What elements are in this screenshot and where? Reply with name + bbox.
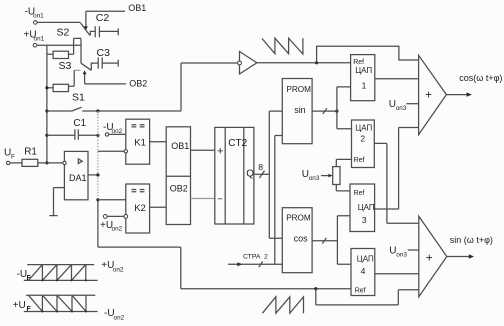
svg-text:−: − <box>217 194 223 205</box>
wire +Uop1 <box>37 44 81 46</box>
svg-text:Ref: Ref <box>354 157 365 164</box>
svg-text:+: + <box>426 253 433 265</box>
counter CT2 <box>215 127 254 224</box>
comparator K1 <box>124 119 150 164</box>
svg-text:K1: K1 <box>134 138 146 149</box>
wire PROM cos output <box>312 216 351 264</box>
bus riser B <box>275 136 283 265</box>
terminal -Uop1 <box>25 7 45 25</box>
label -UF <box>17 269 32 282</box>
switch S1 <box>47 92 98 112</box>
PROM cos <box>282 208 312 273</box>
wire bus to K1 inverting input <box>98 150 124 152</box>
svg-text:3: 3 <box>362 215 367 225</box>
svg-text:оп3: оп3 <box>396 252 407 259</box>
wire to inverter <box>181 63 238 111</box>
svg-text:4: 4 <box>361 266 366 276</box>
label -Uop2 waveform2 <box>104 308 125 322</box>
svg-text:PROM: PROM <box>286 213 311 222</box>
wire OB1 output to counter <box>191 149 215 151</box>
waveform diagram 1 <box>24 265 98 282</box>
left bus wire <box>45 45 48 164</box>
sawtooth symbol top <box>262 38 303 54</box>
wire OB2 output to counter <box>191 198 215 200</box>
one-shot block OB1 OB2 <box>166 127 190 225</box>
svg-text:-U: -U <box>17 269 28 280</box>
wire K1 output <box>150 141 167 143</box>
svg-text:C3: C3 <box>97 47 111 59</box>
svg-text:ЦАП: ЦАП <box>358 203 375 212</box>
svg-text:8: 8 <box>258 162 263 172</box>
capacitor C3 <box>97 47 119 69</box>
control arrow OB2 to S3 <box>83 70 87 84</box>
svg-text:оп3: оп3 <box>396 105 407 112</box>
wire bus to K2 input <box>98 199 126 201</box>
switch S3 <box>59 60 99 86</box>
svg-text:ЦАП: ЦАП <box>357 254 374 263</box>
svg-text:R1: R1 <box>24 146 37 157</box>
svg-text:Ref: Ref <box>354 190 365 197</box>
wire TsAP4 output <box>375 273 419 275</box>
DAC TsAP3 <box>350 184 375 232</box>
wire riser right of resistor <box>80 38 82 63</box>
svg-text:S1: S1 <box>72 92 85 104</box>
svg-text:оп1: оп1 <box>33 13 44 20</box>
svg-text:S3: S3 <box>59 60 72 72</box>
resistor upper <box>47 51 74 58</box>
terminal +Uop1 <box>24 30 45 48</box>
waveform diagram 2 <box>24 295 98 312</box>
input terminal UF <box>4 148 22 165</box>
svg-text:+U: +U <box>13 300 26 311</box>
svg-text:F: F <box>27 306 32 313</box>
inverter buffer <box>238 52 257 75</box>
svg-text:СТРА: СТРА <box>243 254 261 261</box>
label Uop3 at amp2 <box>389 246 419 259</box>
label +UF <box>13 300 32 313</box>
bottom rail wire <box>98 247 419 305</box>
integrator bus <box>96 111 99 247</box>
svg-text:sin (ω t+φ): sin (ω t+φ) <box>450 235 493 245</box>
svg-text:OB1: OB1 <box>128 3 146 13</box>
svg-text:C2: C2 <box>96 12 110 24</box>
switch S2 <box>57 23 95 54</box>
terminal -Uop2 <box>103 122 126 136</box>
capacitor C2 <box>95 12 118 37</box>
svg-text:S2: S2 <box>57 27 70 39</box>
svg-text:OB2: OB2 <box>129 78 147 88</box>
capacitor C1 <box>47 118 100 140</box>
wire inverter output <box>257 61 351 64</box>
DAC TsAP2 <box>352 120 375 168</box>
svg-text:Ref: Ref <box>355 287 366 294</box>
svg-text:1: 1 <box>362 81 367 91</box>
wire K2 output <box>150 206 167 208</box>
svg-text:K2: K2 <box>134 203 146 214</box>
input STRA <box>228 254 282 268</box>
svg-text:оп3: оп3 <box>309 175 320 182</box>
svg-text:cos(ω t+φ): cos(ω t+φ) <box>459 73 502 83</box>
wire DA1 output <box>88 174 98 176</box>
wire TsAP1 output <box>375 78 419 80</box>
output cos <box>446 73 502 97</box>
wire DA1 lower input <box>54 187 65 189</box>
wire Q bus <box>254 162 269 178</box>
svg-text:ЦАП: ЦАП <box>355 123 372 132</box>
resistor R1 <box>22 146 63 166</box>
bus riser A <box>269 111 282 238</box>
PROM sin <box>282 79 312 144</box>
svg-text:оп2: оп2 <box>113 267 124 274</box>
svg-text:оп1: оп1 <box>34 36 45 43</box>
summing amplifier 1 <box>419 55 447 134</box>
node OB2 label and wire <box>85 78 148 88</box>
summing amplifier 2 <box>419 216 447 296</box>
svg-text:CT2: CT2 <box>228 138 247 149</box>
svg-text:cos: cos <box>294 234 309 244</box>
svg-text:2: 2 <box>360 134 365 144</box>
svg-text:OB2: OB2 <box>170 184 188 194</box>
feedback wire to summing amp 1 <box>317 46 419 63</box>
wire TsAP3 output <box>375 128 419 210</box>
comparator K2 <box>124 184 150 233</box>
svg-text:ЦАП: ЦАП <box>355 66 372 75</box>
DAC TsAP1 <box>351 55 375 101</box>
label Uop3 at amp1 <box>389 99 419 112</box>
DAC TsAP4 <box>351 249 375 296</box>
svg-text:sin: sin <box>294 105 306 115</box>
ground <box>49 188 57 216</box>
wire TsAP2 output <box>374 143 418 223</box>
output sin <box>447 235 493 259</box>
svg-text:оп2: оп2 <box>112 226 123 233</box>
terminal +Uop2 <box>100 215 124 233</box>
svg-text:OB1: OB1 <box>171 141 189 151</box>
wire <box>37 21 81 23</box>
potentiometer Uop3 <box>302 159 352 191</box>
svg-text:F: F <box>27 275 32 282</box>
svg-text:Q: Q <box>246 169 254 180</box>
svg-text:F: F <box>11 154 15 161</box>
svg-text:PROM: PROM <box>286 85 311 94</box>
svg-text:2: 2 <box>264 254 268 261</box>
svg-text:оп2: оп2 <box>114 315 125 322</box>
resistor lower <box>47 84 69 91</box>
svg-text:DA1: DA1 <box>69 173 87 183</box>
svg-text:C1: C1 <box>73 118 86 129</box>
wire PROM sin output <box>312 87 351 129</box>
wire S1 output to inverter <box>96 109 181 112</box>
op-amp DA1 <box>63 151 88 199</box>
control arrow OB1 to S2 <box>84 11 88 30</box>
sawtooth symbol bottom <box>262 297 303 313</box>
svg-text:+: + <box>217 146 223 158</box>
svg-text:+: + <box>425 89 432 101</box>
node OB1 label and wire <box>86 3 146 13</box>
label +Uop2 waveform1 <box>101 260 124 274</box>
